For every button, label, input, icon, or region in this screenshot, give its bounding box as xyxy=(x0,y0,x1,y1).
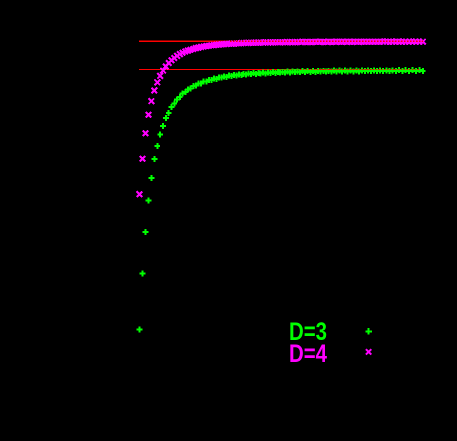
legend marker for D=3 (green plus) xyxy=(365,328,371,334)
red dashes showing through upper band xyxy=(230,40,423,42)
red dashes showing through lower band xyxy=(300,69,420,71)
svg-text:D=4: D=4 xyxy=(289,340,327,368)
legend marker for D=4 (magenta cross) xyxy=(366,349,371,354)
red asymptote line (lower, D=3 limit) xyxy=(139,69,423,71)
data series D=4 (magenta cross markers) xyxy=(137,39,426,197)
red asymptote line (upper, D=4 limit) xyxy=(139,40,423,42)
data series D=3 (green plus markers) xyxy=(137,67,426,332)
